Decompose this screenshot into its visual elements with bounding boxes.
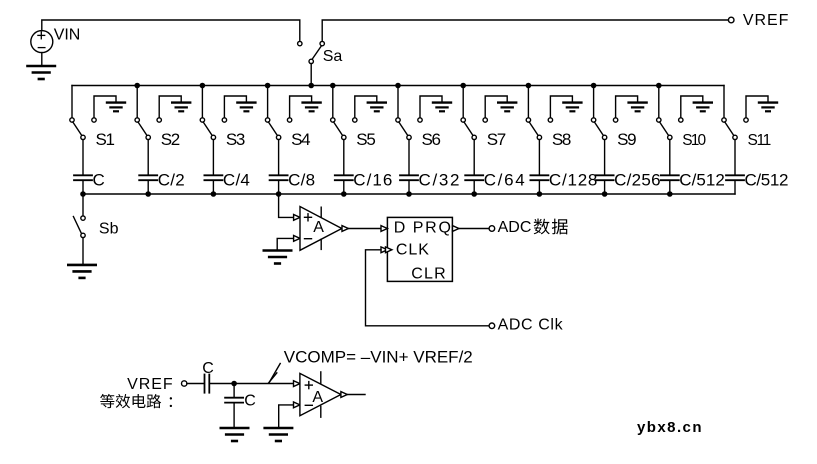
- svg-text:D: D: [394, 219, 406, 236]
- switch S3: [200, 118, 226, 140]
- junction S9 on bottom bus: [602, 191, 608, 197]
- junction S5 on top bus: [330, 83, 336, 89]
- capacitor C (shunt): [225, 384, 243, 427]
- switch S8: [526, 118, 552, 140]
- svg-text:CLR: CLR: [411, 266, 446, 283]
- wire S11 pole to capacitor: [734, 140, 736, 175]
- svg-text:C/512: C/512: [745, 170, 789, 189]
- wire VREF to Sa right throw: [322, 20, 728, 41]
- wire ADC Clk net to CLK input: [366, 250, 490, 326]
- svg-text:C: C: [244, 392, 256, 409]
- wire bottom bus: [83, 193, 735, 195]
- svg-text:C: C: [202, 360, 214, 377]
- A1 output arrow: [342, 226, 348, 232]
- svg-text:A: A: [313, 219, 324, 236]
- svg-text:C/512: C/512: [679, 170, 725, 189]
- ground at S2: [159, 96, 190, 118]
- capacitor C/256 (branch S9): [596, 175, 614, 194]
- Q output arrow: [453, 226, 459, 232]
- junction S6 on bottom bus: [406, 191, 412, 197]
- junction S3 on bottom bus: [211, 191, 217, 197]
- junction S2 on bottom bus: [145, 191, 151, 197]
- CLK input chevrons: [381, 247, 387, 253]
- wire S6 pole to capacitor: [408, 140, 410, 175]
- wire top bus to S9 throw: [593, 86, 595, 118]
- junction S8 on top bus: [526, 83, 532, 89]
- ground at VIN source: [28, 53, 55, 79]
- ground at S10: [681, 96, 712, 118]
- svg-text:S9: S9: [617, 130, 637, 149]
- capacitor C/64 (branch S7): [465, 175, 483, 194]
- svg-text:Sa: Sa: [323, 48, 343, 65]
- ground at shunt capacitor: [221, 428, 248, 441]
- junction S4 on bottom bus: [276, 191, 282, 197]
- svg-text:ADC Clk: ADC Clk: [498, 316, 564, 333]
- svg-text:CLK: CLK: [396, 241, 429, 258]
- wire top bus to S10 throw: [658, 86, 660, 118]
- switch S5: [331, 118, 357, 140]
- svg-text:S11: S11: [748, 132, 772, 149]
- op-amp A1 (comparator): [294, 207, 342, 251]
- svg-text:S3: S3: [226, 130, 246, 149]
- svg-text:C/16: C/16: [353, 170, 392, 189]
- node VCOMP junction: [231, 381, 237, 387]
- wire A1 output to D input: [348, 228, 381, 230]
- wire top bus to S8 throw: [527, 86, 529, 118]
- svg-text:PRQ: PRQ: [413, 219, 451, 236]
- ground at S3: [224, 96, 255, 118]
- junction S9 on top bus: [591, 83, 597, 89]
- wire top bus to S11 throw: [723, 86, 725, 118]
- wire Sb to ground: [82, 238, 84, 264]
- capacitor C/32 (branch S6): [400, 175, 418, 194]
- ground at S11: [746, 96, 777, 118]
- svg-text:VREF: VREF: [127, 376, 173, 393]
- switch S2: [135, 118, 161, 140]
- svg-text:S1: S1: [96, 130, 116, 149]
- A2 output arrow: [341, 392, 347, 398]
- switch Sa: [298, 41, 325, 63]
- junction S7 on bottom bus: [471, 191, 477, 197]
- voltage source VIN: [31, 31, 53, 53]
- ground at S8: [550, 96, 581, 118]
- wire top bus: [72, 85, 724, 87]
- svg-text:C/32: C/32: [419, 170, 460, 189]
- ground at S6: [420, 96, 451, 118]
- svg-text:C/2: C/2: [158, 170, 185, 189]
- wire S10 pole to capacitor: [669, 140, 671, 175]
- svg-text:C/256: C/256: [614, 170, 661, 189]
- wire S2 pole to capacitor: [147, 140, 149, 175]
- svg-text:A: A: [312, 389, 323, 406]
- wire top bus to S3 throw: [201, 86, 203, 118]
- svg-text:S2: S2: [161, 130, 181, 149]
- wire S9 pole to capacitor: [604, 140, 606, 175]
- wire Sa pole to top bus: [310, 64, 312, 86]
- switch S7: [461, 118, 487, 140]
- junction S7 on top bus: [460, 83, 466, 89]
- svg-text:S7: S7: [487, 130, 507, 149]
- ground at S5: [355, 96, 386, 118]
- capacitor C/512 (branch S10): [661, 175, 679, 194]
- wire VREF terminal to series capacitor: [187, 383, 204, 385]
- svg-text:VIN: VIN: [54, 27, 81, 44]
- annotation arrow to node VCOMP: [269, 364, 281, 383]
- svg-text:S5: S5: [356, 130, 376, 149]
- svg-text:S6: S6: [422, 130, 442, 149]
- svg-text:VREF: VREF: [743, 12, 789, 29]
- switch S4: [265, 118, 291, 140]
- ground at S7: [485, 96, 516, 118]
- wire S7 pole to capacitor: [473, 140, 475, 175]
- svg-text:ybx8.cn: ybx8.cn: [637, 419, 702, 436]
- wire S5 pole to capacitor: [343, 140, 345, 175]
- capacitor C (series): [205, 375, 210, 393]
- terminal VREF: [728, 17, 734, 23]
- svg-text:S4: S4: [291, 130, 311, 149]
- svg-text:VCOMP= –VIN+ VREF/2: VCOMP= –VIN+ VREF/2: [284, 348, 473, 367]
- ground at S4: [290, 96, 321, 118]
- wire top bus to S4 throw: [267, 86, 269, 118]
- junction S10 on bottom bus: [667, 191, 673, 197]
- switch S11: [722, 118, 748, 140]
- op-amp A2 (equivalent circuit): [294, 372, 341, 417]
- capacitor C/2 (branch S2): [139, 175, 157, 194]
- svg-text:C/8: C/8: [288, 170, 315, 189]
- D flip-flop U1: [387, 217, 452, 281]
- svg-text:S8: S8: [552, 130, 572, 149]
- wire bottom bus to Sb: [82, 194, 84, 216]
- junction S8 on bottom bus: [537, 191, 543, 197]
- ground at A2 inverting input: [265, 405, 294, 441]
- wire Q output to ADC data terminal: [459, 228, 489, 230]
- wire A2 output: [347, 394, 365, 396]
- svg-text:S10: S10: [682, 132, 706, 149]
- ground at S9: [616, 96, 647, 118]
- wire top bus to S1 throw: [71, 86, 73, 118]
- wire series capacitor to A2 non-inverting input (node VCOMP): [209, 383, 293, 385]
- junction S1 on bottom bus: [80, 191, 86, 197]
- wire bottom bus (node S4) to A1 non-inverting input: [279, 194, 294, 217]
- wire S3 pole to capacitor: [212, 140, 214, 175]
- junction S3 on top bus: [200, 83, 206, 89]
- svg-text:C/64: C/64: [484, 170, 525, 189]
- terminal VREF (equivalent circuit): [182, 381, 187, 386]
- wire top bus to S6 throw: [397, 86, 399, 118]
- capacitor C (branch S1): [74, 175, 92, 194]
- switch S1: [70, 118, 96, 140]
- switch S6: [396, 118, 422, 140]
- ground at Sb: [68, 265, 95, 278]
- ground at S1: [94, 96, 125, 118]
- switch S9: [591, 118, 617, 140]
- wire S4 pole to capacitor: [278, 140, 280, 175]
- switch S10: [657, 118, 683, 140]
- junction S4 on top bus: [265, 83, 271, 89]
- capacitor C/4 (branch S3): [204, 175, 222, 194]
- svg-text:C: C: [93, 170, 105, 189]
- junction S5 on bottom bus: [341, 191, 347, 197]
- switch Sb: [73, 216, 85, 238]
- wire top bus to S7 throw: [462, 86, 464, 118]
- svg-text:ADC: ADC: [498, 219, 532, 236]
- wire VIN top to Sa left throw: [42, 20, 300, 41]
- D input arrow: [381, 226, 387, 232]
- ground at A1 inverting input: [264, 238, 294, 263]
- terminal ADC Clk: [489, 323, 495, 329]
- label 等效电路：: [100, 394, 172, 408]
- capacitor C/16 (branch S5): [335, 175, 353, 194]
- junction Sa on top bus: [308, 83, 314, 89]
- wire S8 pole to capacitor: [538, 140, 540, 175]
- terminal ADC data: [489, 226, 495, 232]
- junction S2 on top bus: [134, 83, 140, 89]
- svg-text:C/128: C/128: [549, 170, 598, 189]
- wire S1 pole to capacitor: [82, 140, 84, 175]
- label 数: [534, 219, 550, 235]
- label 据: [552, 219, 568, 235]
- capacitor C/8 (branch S4): [270, 175, 288, 194]
- junction S10 on top bus: [656, 83, 662, 89]
- svg-text:C/4: C/4: [223, 170, 250, 189]
- wire top bus to S2 throw: [136, 86, 138, 118]
- junction S6 on top bus: [395, 83, 401, 89]
- capacitor C/128 (branch S8): [530, 175, 548, 194]
- capacitor C/512 (branch S11): [726, 175, 744, 194]
- svg-text:Sb: Sb: [99, 221, 119, 238]
- wire top bus to S5 throw: [332, 86, 334, 118]
